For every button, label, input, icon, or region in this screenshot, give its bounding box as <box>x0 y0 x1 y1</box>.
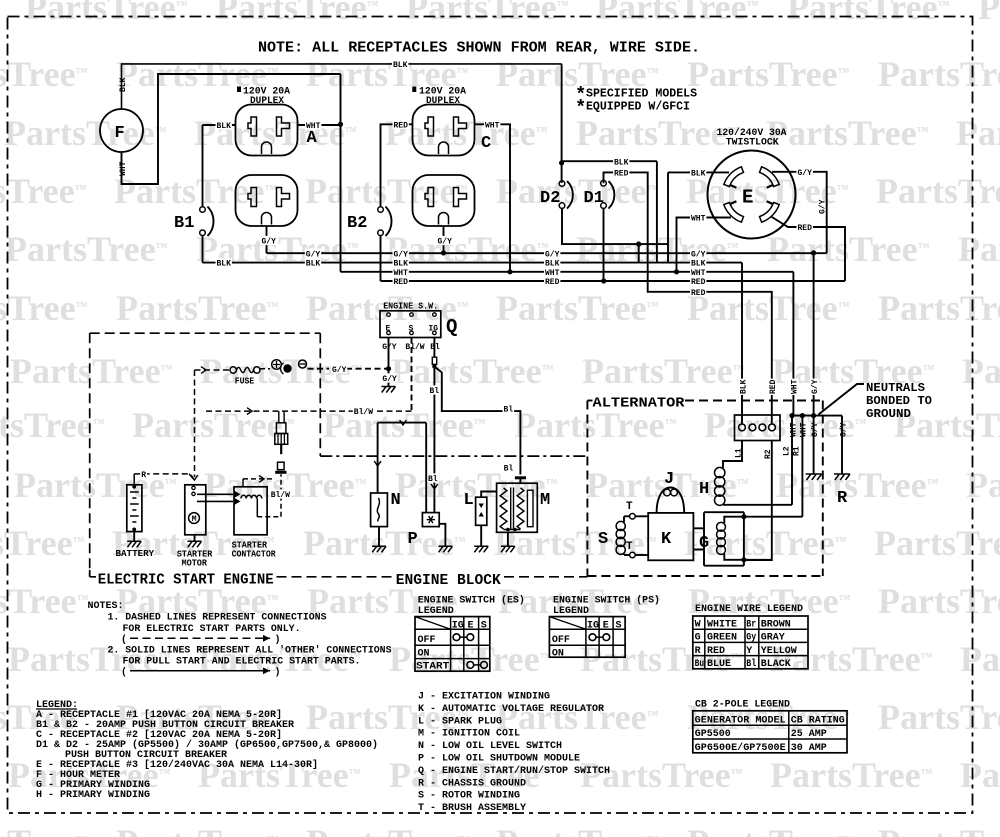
svg-text:GENERATOR MODEL: GENERATOR MODEL <box>695 715 786 726</box>
svg-text:BATTERY: BATTERY <box>116 549 155 559</box>
svg-text:RED: RED <box>691 278 706 287</box>
svg-text:G/Y: G/Y <box>438 238 453 247</box>
svg-text:FUSE: FUSE <box>235 377 255 387</box>
svg-text:G/Y: G/Y <box>382 375 397 384</box>
svg-text:BLK: BLK <box>691 170 706 179</box>
chassis ground engine switch <box>382 387 396 393</box>
svg-text:GP6500E/GP7500E: GP6500E/GP7500E <box>695 742 786 754</box>
svg-text:T: T <box>626 501 633 513</box>
svg-text:J: J <box>664 470 674 489</box>
wire N to P link <box>378 422 427 424</box>
svg-text:WHT: WHT <box>485 121 500 130</box>
receptacle C upper half <box>413 105 475 156</box>
fuse <box>230 367 236 373</box>
wire R2 strip to winding G <box>744 441 772 561</box>
svg-text:ON: ON <box>552 648 564 659</box>
svg-text:Bu: Bu <box>695 659 705 670</box>
wire BLK bus to terminal strip <box>741 263 743 424</box>
starter cables <box>197 493 233 495</box>
svg-text:R - CHASSIS GROUND: R - CHASSIS GROUND <box>418 778 526 789</box>
svg-text:S: S <box>598 530 608 549</box>
wire BLK B1 to receptacle A <box>203 124 236 126</box>
wire RED D1 to alternator strip <box>604 172 772 424</box>
svg-text:E: E <box>468 620 474 631</box>
svg-text:BLK: BLK <box>217 260 232 269</box>
svg-text:E: E <box>603 620 609 631</box>
receptacle E twistlock <box>708 151 796 239</box>
svg-text:T: T <box>626 541 633 553</box>
chassis ground starter motor <box>194 535 196 542</box>
wire BLK from F to D2 node <box>122 64 562 109</box>
svg-text:RED: RED <box>798 224 813 233</box>
svg-text:R: R <box>837 489 848 508</box>
svg-text:LEGEND: LEGEND <box>418 605 454 617</box>
winding H <box>715 467 725 477</box>
low oil shutdown module P <box>422 513 439 527</box>
svg-text:IG: IG <box>587 620 599 631</box>
hour meter F <box>100 109 143 152</box>
svg-text:S: S <box>616 620 622 631</box>
receptacle A lower half <box>236 175 298 226</box>
wire BLK main down to D2 <box>561 64 563 183</box>
svg-text:LEGEND: LEGEND <box>553 605 589 617</box>
wire E terminal to ground <box>388 338 390 387</box>
charge connector symbols <box>260 368 270 370</box>
breaker B2 <box>378 207 384 213</box>
svg-text:ELECTRIC START ENGINE: ELECTRIC START ENGINE <box>98 572 274 589</box>
breaker D2 <box>559 181 565 187</box>
wire L1 strip to winding H <box>723 441 742 469</box>
svg-text:Q: Q <box>446 316 457 338</box>
chassis ground L <box>480 525 482 546</box>
svg-text:S: S <box>409 325 414 334</box>
svg-text:IG: IG <box>452 620 464 631</box>
svg-text:ENGINE S.W.: ENGINE S.W. <box>383 302 438 312</box>
svg-text:L: L <box>464 491 474 510</box>
chassis ground alternator right <box>834 474 850 480</box>
receptacle A upper half <box>236 105 298 156</box>
svg-text:D1: D1 <box>584 189 604 208</box>
svg-text:IG: IG <box>429 325 439 334</box>
svg-text:D2: D2 <box>540 189 560 208</box>
wire G/Y from E <box>772 172 827 253</box>
chassis ground P <box>439 524 445 547</box>
svg-text:*: * <box>575 97 586 119</box>
RED branch to strip <box>690 287 706 296</box>
svg-text:P: P <box>408 530 418 549</box>
svg-text:BLK: BLK <box>306 260 321 269</box>
svg-text:E: E <box>742 187 753 209</box>
svg-text:START: START <box>416 662 449 673</box>
svg-text:GP5500: GP5500 <box>695 729 731 740</box>
svg-text:T - BRUSH ASSEMBLY: T - BRUSH ASSEMBLY <box>418 803 526 814</box>
svg-text:WHT: WHT <box>800 422 809 437</box>
svg-text:GROUND: GROUND <box>866 407 911 421</box>
svg-text:W: W <box>695 620 701 631</box>
svg-text:B2: B2 <box>347 214 367 233</box>
svg-text:CB RATING: CB RATING <box>791 715 845 726</box>
receptacle C labels <box>412 87 416 93</box>
voltage regulator K <box>648 513 693 560</box>
svg-text:L2: L2 <box>782 446 791 456</box>
svg-text:SPECIFIED MODELS: SPECIFIED MODELS <box>586 87 697 101</box>
contactor top to connector dashed <box>242 479 244 487</box>
svg-text:RED: RED <box>614 170 629 179</box>
svg-text:G/Y: G/Y <box>811 379 820 394</box>
alternator dashed box <box>587 400 592 402</box>
engine switch Q box <box>380 311 441 338</box>
svg-text:EQUIPPED W/GFCI: EQUIPPED W/GFCI <box>586 100 690 114</box>
svg-text:TWISTLOCK: TWISTLOCK <box>726 138 779 149</box>
low oil level switch N <box>371 493 388 527</box>
svg-text:N - LOW OIL LEVEL SWITCH: N - LOW OIL LEVEL SWITCH <box>418 741 562 752</box>
svg-text:C: C <box>481 134 491 153</box>
svg-text:R: R <box>695 646 701 657</box>
svg-text:NEUTRALS: NEUTRALS <box>866 381 925 395</box>
svg-text:J - EXCITATION WINDING: J - EXCITATION WINDING <box>418 692 550 703</box>
WHT bus <box>341 271 794 273</box>
chassis ground M <box>507 532 509 546</box>
inline connector pair <box>279 411 284 423</box>
svg-text:FOR PULL START AND ELECTRIC ST: FOR PULL START AND ELECTRIC START PARTS. <box>123 657 361 668</box>
svg-text:ON: ON <box>418 648 430 659</box>
svg-text:RED: RED <box>691 289 706 298</box>
rotor winding S <box>616 521 625 530</box>
G/Y bus <box>267 252 827 254</box>
wire G/Y dashed fuse to switch <box>346 368 389 370</box>
svg-text:F: F <box>115 124 125 143</box>
svg-text:G/Y: G/Y <box>262 238 277 247</box>
svg-text:L - SPARK PLUG: L - SPARK PLUG <box>418 716 502 727</box>
svg-text:BLK: BLK <box>739 379 748 394</box>
wire G top to neutral R1 <box>724 517 802 523</box>
svg-text:GRAY: GRAY <box>761 633 785 644</box>
regulator output bracket <box>693 512 744 566</box>
svg-text:2. SOLID LINES REPRESENT ALL ': 2. SOLID LINES REPRESENT ALL 'OTHER' CON… <box>108 645 392 657</box>
svg-text:BROWN: BROWN <box>761 620 791 631</box>
RED bus <box>381 280 846 282</box>
wire H bottom to neutral L2 <box>723 504 792 506</box>
wire WHT bus to bond point <box>792 272 794 416</box>
svg-text:M - IGNITION COIL: M - IGNITION COIL <box>418 729 520 740</box>
svg-text:BLK: BLK <box>614 158 629 167</box>
svg-text:Bl/W: Bl/W <box>354 408 373 417</box>
svg-text:MOTOR: MOTOR <box>182 559 208 569</box>
svg-text:WHT: WHT <box>789 422 798 437</box>
svg-text:BLK: BLK <box>119 77 128 92</box>
svg-text:RED: RED <box>394 278 409 287</box>
svg-text:R: R <box>141 471 146 480</box>
svg-text:Br: Br <box>746 620 756 631</box>
svg-text:Bl: Bl <box>428 475 438 484</box>
receptacle C lower half <box>413 175 475 226</box>
electric start engine dashed box <box>90 332 321 334</box>
chassis ground alternator left <box>806 474 822 480</box>
svg-text:RED: RED <box>707 646 725 657</box>
svg-text:R1: R1 <box>793 446 802 456</box>
ignition connector <box>515 476 526 479</box>
fuse dashed feed <box>194 370 196 477</box>
wire G/Y receptacle C ground to bus <box>443 226 445 253</box>
svg-text:H: H <box>699 480 709 499</box>
svg-text:FOR ELECTRIC START PARTS ONLY.: FOR ELECTRIC START PARTS ONLY. <box>123 624 301 635</box>
svg-text:BLK: BLK <box>217 122 232 131</box>
svg-text:G/Y: G/Y <box>306 250 321 259</box>
svg-text:G/Y: G/Y <box>818 199 827 214</box>
svg-text:Q - ENGINE START/RUN/STOP SWIT: Q - ENGINE START/RUN/STOP SWITCH <box>418 765 610 777</box>
svg-text:30 AMP: 30 AMP <box>791 743 827 754</box>
bottom dashed boundary <box>90 570 96 577</box>
starter motor <box>185 485 206 535</box>
svg-text:25 AMP: 25 AMP <box>791 729 827 740</box>
wire R1 WHT below bond <box>801 416 803 517</box>
svg-text:K - AUTOMATIC VOLTAGE REGULATO: K - AUTOMATIC VOLTAGE REGULATOR <box>418 704 604 715</box>
wire D2 bottom <box>562 208 668 244</box>
wire RED strip label <box>768 379 777 395</box>
wire L2 WHT below bond <box>791 416 793 505</box>
svg-text:P - LOW OIL SHUTDOWN MODULE: P - LOW OIL SHUTDOWN MODULE <box>418 754 580 765</box>
svg-text:): ) <box>275 667 281 679</box>
svg-text:Gy: Gy <box>746 633 756 644</box>
svg-text:Bl/W: Bl/W <box>405 343 424 352</box>
svg-text:L1: L1 <box>735 448 744 458</box>
bl/w dashed starter to switch <box>206 410 412 412</box>
wire WHT vertical node to bus <box>340 74 342 272</box>
svg-text:CB 2-POLE LEGEND: CB 2-POLE LEGEND <box>695 699 790 711</box>
svg-text:(: ( <box>121 667 127 679</box>
svg-text:BLUE: BLUE <box>707 659 731 670</box>
svg-text:WHT: WHT <box>691 215 706 224</box>
contactor coil to connector dashed <box>257 516 281 518</box>
svg-text:RED: RED <box>769 379 778 394</box>
svg-text:G: G <box>695 633 701 644</box>
svg-text:): ) <box>275 634 281 646</box>
svg-text:WHITE: WHITE <box>707 620 737 631</box>
svg-text:ENGINE WIRE LEGEND: ENGINE WIRE LEGEND <box>695 603 803 615</box>
svg-text:G/Y: G/Y <box>394 250 409 259</box>
spark plug L <box>476 497 487 525</box>
svg-text:G/Y: G/Y <box>332 366 347 375</box>
svg-text:NOTES:: NOTES: <box>88 601 124 612</box>
svg-text:Bl: Bl <box>430 387 440 396</box>
svg-text:(: ( <box>121 634 127 646</box>
wire BLK D2 node to E branch <box>562 160 657 162</box>
svg-text:A: A <box>307 129 318 148</box>
svg-text:Bl: Bl <box>504 406 514 415</box>
svg-text:DUPLEX: DUPLEX <box>250 96 284 107</box>
svg-text:K: K <box>661 530 672 549</box>
neutral bond point <box>792 415 842 417</box>
svg-text:G/Y: G/Y <box>811 422 820 437</box>
breaker D1 <box>601 180 607 186</box>
svg-text:Bl: Bl <box>746 658 756 670</box>
svg-text:OFF: OFF <box>552 635 570 646</box>
battery <box>127 485 142 532</box>
BLK bus <box>203 262 743 264</box>
terminal strip brush assembly <box>735 415 781 441</box>
svg-text:ENGINE BLOCK: ENGINE BLOCK <box>396 572 501 589</box>
brush terminal T upper <box>623 516 625 522</box>
svg-text:WHT: WHT <box>306 122 321 131</box>
svg-text:BLK: BLK <box>393 61 408 70</box>
wire G/Y receptacle A ground to bus <box>266 226 268 253</box>
svg-text:DUPLEX: DUPLEX <box>426 96 460 107</box>
svg-text:GREEN: GREEN <box>707 633 737 644</box>
wire D1 bottom to RED bus <box>603 208 605 281</box>
wire G/Y bus to bond point <box>813 253 815 415</box>
wire from A WHT to node <box>298 124 341 126</box>
wire BLK to E <box>668 171 729 173</box>
wire G/Y to chassis ground left <box>813 416 815 474</box>
chassis ground N <box>378 527 380 547</box>
winding G <box>717 522 726 531</box>
svg-text:Bl/W: Bl/W <box>271 491 290 500</box>
wire WHT to E <box>677 218 732 272</box>
wire RED B2 to receptacle C <box>381 124 413 206</box>
svg-text:G/Y: G/Y <box>691 250 706 259</box>
brush terminal T lower <box>623 554 625 555</box>
svg-text:CONTACTOR: CONTACTOR <box>232 550 277 560</box>
engine block dashed top <box>320 455 587 457</box>
svg-text:RED: RED <box>545 278 560 287</box>
svg-text:Y: Y <box>746 646 752 657</box>
starter contactor <box>234 487 267 535</box>
svg-text:BLACK: BLACK <box>761 659 791 670</box>
wire RED from E <box>771 217 845 282</box>
svg-text:BONDED TO: BONDED TO <box>866 394 932 408</box>
svg-text:G/Y: G/Y <box>382 343 397 352</box>
svg-text:S: S <box>481 620 487 631</box>
svg-text:ALTERNATOR: ALTERNATOR <box>593 396 686 412</box>
svg-text:WHT: WHT <box>791 379 800 394</box>
svg-text:WHT: WHT <box>119 161 128 176</box>
wire S terminal Bl/W dashed <box>411 338 413 412</box>
svg-text:G/Y: G/Y <box>545 250 560 259</box>
svg-text:N: N <box>391 491 401 510</box>
wire G bottom to R2 <box>724 554 772 560</box>
svg-text:M: M <box>540 491 550 510</box>
wire IG terminal Bl <box>433 338 435 358</box>
breaker B1 <box>202 125 204 207</box>
wire WHT from F to node <box>122 74 341 184</box>
svg-text:OFF: OFF <box>418 635 436 646</box>
svg-text:RED: RED <box>394 121 409 130</box>
ignition coil M <box>497 483 538 532</box>
svg-text:G/Y: G/Y <box>839 422 848 437</box>
wire R battery to starter dashed <box>133 474 135 485</box>
svg-text:G/Y: G/Y <box>798 169 813 178</box>
svg-text:B1: B1 <box>174 214 194 233</box>
wire WHT receptacle C to bus <box>475 124 511 271</box>
svg-text:1. DASHED LINES REPRESENT CONN: 1. DASHED LINES REPRESENT CONNECTIONS <box>108 613 327 624</box>
receptacle A labels <box>237 87 241 93</box>
svg-text:S - ROTOR WINDING: S - ROTOR WINDING <box>418 791 520 802</box>
chassis ground battery <box>133 532 135 542</box>
svg-text:NOTE: ALL RECEPTACLES SHOWN FR: NOTE: ALL RECEPTACLES SHOWN FROM REAR, W… <box>258 40 700 57</box>
svg-text:Bl: Bl <box>504 465 514 474</box>
excitation winding J <box>657 488 685 514</box>
svg-text:M: M <box>192 515 197 524</box>
svg-text:E: E <box>386 325 391 334</box>
svg-text:R2: R2 <box>764 449 773 459</box>
svg-text:H - PRIMARY WINDING: H - PRIMARY WINDING <box>36 790 150 801</box>
svg-text:YELLOW: YELLOW <box>761 646 797 657</box>
